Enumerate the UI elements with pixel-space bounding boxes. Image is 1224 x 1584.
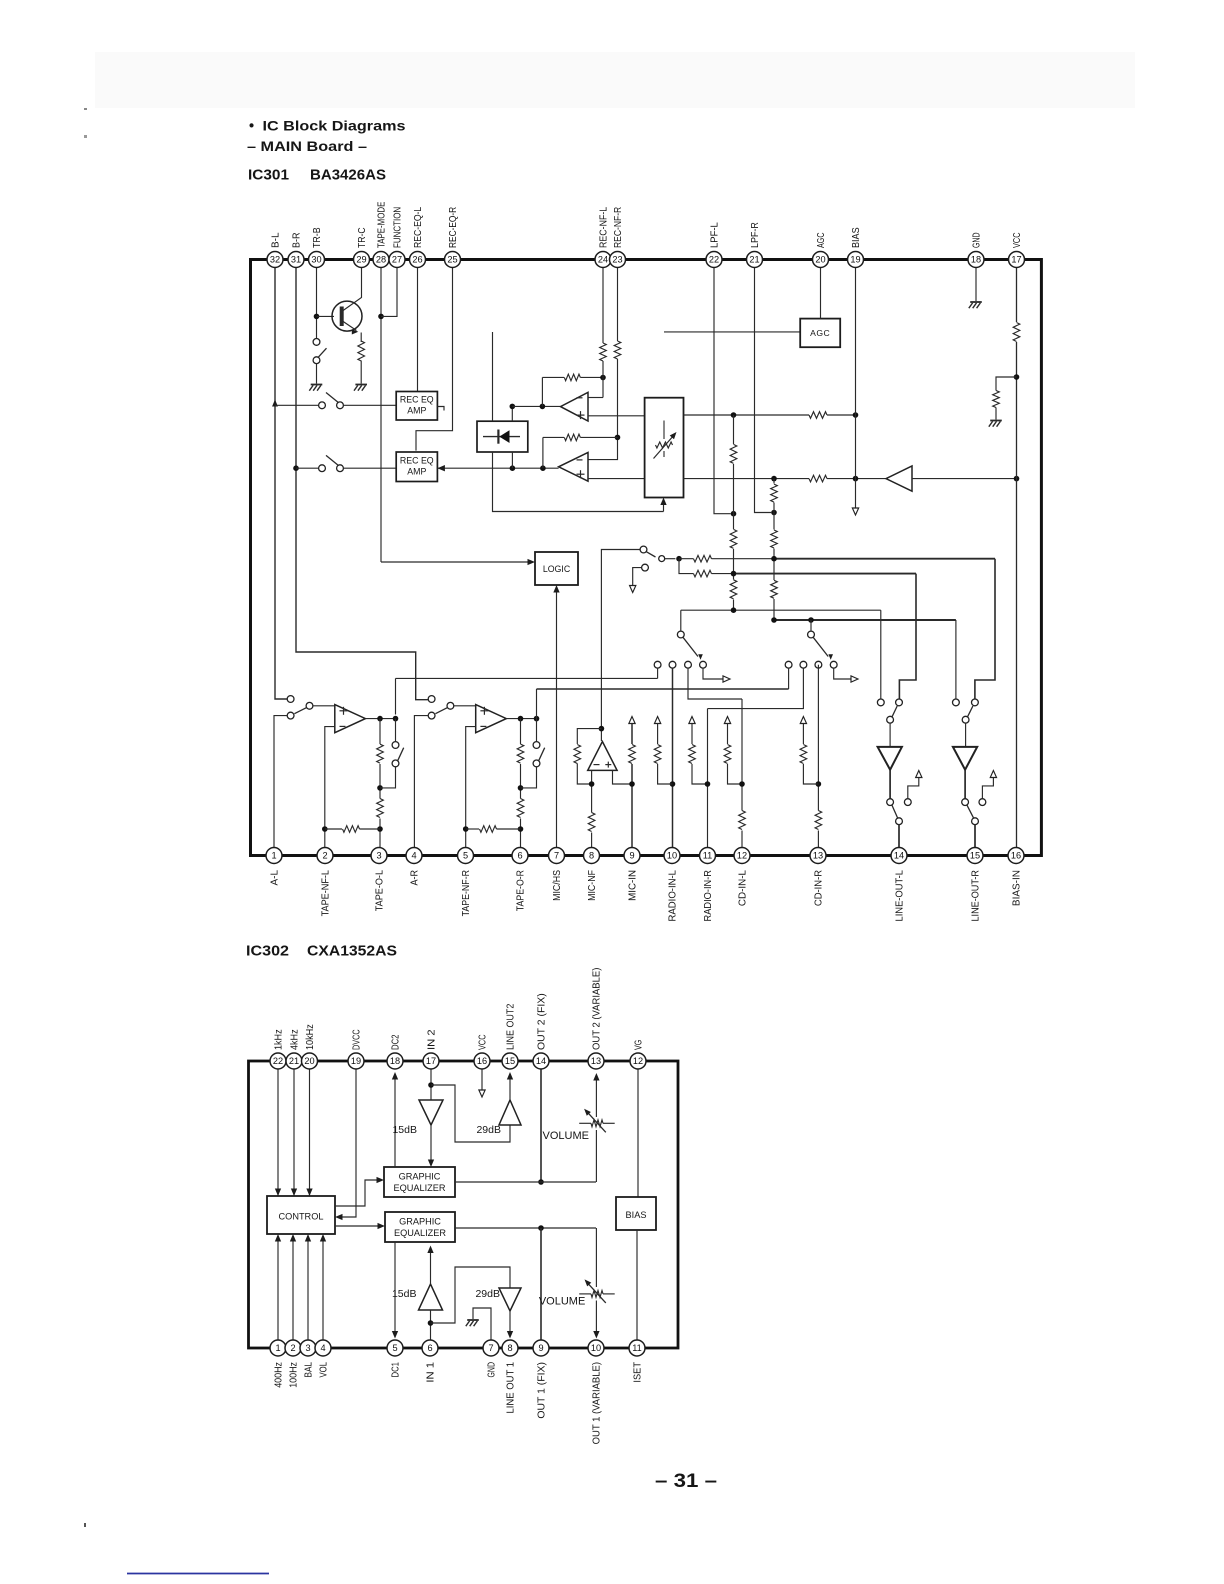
- wire pin18 GND stub: [975, 268, 977, 302]
- op-amp U5 (playback R): [476, 705, 507, 733]
- svg-text:15dB: 15dB: [392, 1124, 417, 1136]
- LINE-OUT-L pivot and arm: [887, 716, 894, 723]
- svg-text:LINE OUT2: LINE OUT2: [506, 1003, 517, 1050]
- svg-text:20: 20: [304, 1056, 314, 1066]
- svg-text:ISET: ISET: [633, 1361, 644, 1382]
- pin 22 (1kHz) of IC302: [270, 1053, 286, 1069]
- wire switch to op-amp U5 non-inverting input: [454, 705, 476, 707]
- pin 30 (TR-B) of IC301: [309, 252, 325, 268]
- svg-text:22: 22: [273, 1056, 283, 1066]
- svg-text:4: 4: [320, 1343, 325, 1353]
- wire resistor column x733 (LPF-L filter): [733, 415, 735, 610]
- pull-up column with arrow x803: [800, 717, 806, 724]
- pin 5 (DC1) of IC302: [387, 1340, 403, 1356]
- svg-text:5: 5: [392, 1343, 397, 1353]
- svg-text:TR-B: TR-B: [312, 227, 323, 248]
- junction TAPE-NF-L at feedback resistor: [322, 826, 328, 832]
- wire contact1-1 to tape monitor bus: [657, 668, 659, 678]
- tap arrowhead on B-L column at REC-EQ-L switch line: [272, 400, 278, 407]
- switch S1 contacts on REC-EQ-L line: [319, 402, 326, 409]
- svg-text:BIAS-IN: BIAS-IN: [1012, 870, 1023, 906]
- pin 18 (GND) of IC301: [968, 252, 984, 268]
- terminal arrow at BIAS column bottom: [852, 508, 858, 515]
- block LOGIC: [535, 552, 578, 585]
- pin 32 (B-L) of IC301: [267, 252, 283, 268]
- mute alternate contact with arrow L: [904, 799, 911, 806]
- svg-text:EQUALIZER: EQUALIZER: [394, 1228, 446, 1238]
- pin 16 (BIAS-IN) of IC301: [1008, 848, 1024, 864]
- wire pin5 DC1 from EQ2 with arrow down: [394, 1242, 396, 1332]
- pin 21 (4kHz) of IC302: [286, 1053, 302, 1069]
- pull-up column with arrow at MIC-IN: [629, 717, 635, 724]
- wire pin11 RADIO-IN-R column: [707, 709, 709, 848]
- svg-text:400Hz: 400Hz: [274, 1362, 285, 1388]
- svg-text:REC-EQ-L: REC-EQ-L: [413, 207, 424, 248]
- svg-text:6: 6: [427, 1343, 432, 1353]
- pin 22 (LPF-L) of IC301: [706, 252, 722, 268]
- junction at VCC column: [1014, 476, 1020, 482]
- svg-text:CD-IN-L: CD-IN-L: [738, 870, 749, 906]
- pin 8 (LINE OUT 1) of IC302: [502, 1340, 518, 1356]
- svg-text:8: 8: [589, 851, 594, 861]
- junction on B-R column at REC-EQ switch line 2: [293, 465, 299, 471]
- bypass switch S6 on TAPE-O-R: [521, 767, 537, 788]
- transistor Q1 base bar: [340, 307, 344, 327]
- wire pin31 B-R column, runs down then right to tape contact: [296, 268, 428, 700]
- junction main line / x774 column: [771, 476, 777, 482]
- selector contact group 1: [654, 661, 661, 668]
- svg-text:14: 14: [536, 1056, 546, 1066]
- svg-text:OUT 2 (VARIABLE): OUT 2 (VARIABLE): [592, 968, 603, 1050]
- wire TAPE-O-R column with feedback resistors: [520, 719, 522, 848]
- svg-text:VOLUME: VOLUME: [539, 1296, 585, 1308]
- arrow into pin10 OUT1 VARIABLE: [593, 1331, 599, 1339]
- amp 15dB (channel 1): [419, 1284, 443, 1310]
- wire pin13 CD-IN-R top riser: [817, 665, 819, 668]
- wire U4 inverting leg down MIC-NF column: [591, 770, 593, 847]
- wire op-amp U2 non-inverting input to variable-gain block: [588, 415, 645, 417]
- selector pivot 2: [808, 631, 815, 638]
- op-amp U1 input switch: [287, 696, 294, 703]
- IC301 package outline: [251, 260, 1042, 856]
- junction IN1: [428, 1320, 434, 1326]
- LINE-OUT-R pivot and arm: [962, 716, 969, 723]
- resistor on MIC-NF column: [587, 813, 596, 833]
- pin 14 (LINE-OUT-L) of IC301: [891, 848, 907, 864]
- svg-text:VOLUME: VOLUME: [543, 1130, 589, 1142]
- wire stub diode box top right with junction: [511, 406, 513, 421]
- pin 10 (RADIO-IN-L) of IC301: [664, 848, 680, 864]
- switch S4 alternate contact with terminal arrow: [642, 564, 649, 571]
- svg-text:1: 1: [271, 851, 276, 861]
- wire REC-EQ switch line 1 from B-L column to switch: [275, 404, 319, 406]
- wire pin7 GND to ground symbol: [473, 1308, 491, 1340]
- wire emitter to resistor R-emitter: [360, 333, 362, 343]
- svg-text:29: 29: [356, 255, 366, 265]
- svg-text:14: 14: [894, 851, 904, 861]
- ground at pin7: [467, 1319, 479, 1321]
- junction VCC column upper: [1014, 374, 1020, 380]
- svg-text:REC-NF-R: REC-NF-R: [613, 207, 624, 248]
- mute alternate contact with arrow R: [979, 799, 986, 806]
- svg-text:A-R: A-R: [410, 870, 421, 886]
- wire pin2 100Hz into CONTROL: [292, 1238, 294, 1340]
- svg-text:VCC: VCC: [478, 1034, 489, 1050]
- junction TAPE-O-L lower: [377, 826, 383, 832]
- junction LPF mix node: [676, 556, 682, 562]
- block CONTROL: [267, 1196, 335, 1234]
- wire pin22 1kHz into CONTROL: [277, 1070, 279, 1200]
- LINE-OUT-L output stage: selector contacts: [877, 699, 884, 706]
- svg-text:2: 2: [322, 851, 327, 861]
- svg-text:IC301: IC301: [248, 167, 290, 184]
- svg-text:B-R: B-R: [292, 233, 303, 249]
- wire pin28 TAPE-MODE column down to LOGIC: [380, 268, 382, 563]
- wire mix bus upper y558 to LINE-OUT-R selector: [679, 558, 774, 560]
- pin 17 (IN 2) of IC302: [423, 1053, 439, 1069]
- diode D1: [483, 436, 520, 438]
- svg-text:GND: GND: [487, 1362, 498, 1378]
- junction TR-B / transistor base: [314, 314, 320, 320]
- wire pin19 BIAS column: [855, 268, 857, 509]
- wire 15dB amp into EQ1 with arrow: [430, 1125, 432, 1164]
- svg-text:•: •: [249, 119, 254, 135]
- wire contact2-4 to output arrow: [834, 668, 854, 679]
- svg-text:13: 13: [591, 1056, 601, 1066]
- transistor Q1 collector: [342, 268, 362, 312]
- junction feedback riser B: [540, 465, 546, 471]
- wire riser from op-amp U1 output to monitor bus: [395, 678, 397, 714]
- wire volume 1 riser: [595, 1228, 597, 1287]
- arrow into pin13 OUT2 VARIABLE: [593, 1073, 599, 1081]
- junction RADIO-IN-L: [670, 781, 676, 787]
- svg-text:19: 19: [351, 1056, 361, 1066]
- wire U4 feedback loop with resistor: [577, 729, 601, 744]
- scan shading band at top of page: [95, 52, 1135, 108]
- junction mix bus lower / x733: [731, 571, 737, 577]
- resistor feedback B: [564, 434, 580, 441]
- wire contact2-3 down CD-IN-R column: [817, 668, 819, 847]
- switch S4 contact hook: [659, 556, 665, 562]
- junction diode-box to feedback bus: [510, 465, 516, 471]
- svg-text:31: 31: [291, 255, 301, 265]
- blue scan line bottom: [127, 1573, 269, 1575]
- wire op-amp U1 inverting input down to pin2 column: [325, 727, 335, 848]
- wire bus R corner down to LINE-OUT-R left contact: [955, 620, 957, 699]
- wire IN1 to 29dB amp 1: [431, 1267, 511, 1323]
- pin 15 (LINE-OUT-R) of IC301: [967, 848, 983, 864]
- amp 29dB (channel 1): [499, 1288, 521, 1311]
- volume control (channel 1): [579, 1293, 591, 1295]
- pin 13 (CD-IN-R) of IC301: [810, 848, 826, 864]
- svg-text:BAL: BAL: [304, 1362, 315, 1378]
- wire pin27 FUNCTION to TAPE-MODE column: [381, 268, 397, 317]
- svg-text:5: 5: [463, 851, 468, 861]
- wire pin32 B-L down-left column to input switch of op-amp U1: [275, 268, 287, 700]
- wire tape monitor bus at y678 from op-amp U1 output riser to selector contact: [396, 677, 658, 679]
- selector pivot 1: [677, 631, 684, 638]
- svg-text:LPF-L: LPF-L: [710, 222, 721, 248]
- svg-text:10kHz: 10kHz: [305, 1024, 316, 1050]
- wire feedback B riser: [542, 437, 544, 468]
- pin 12 (VG) of IC302: [630, 1053, 646, 1069]
- wire pin26 REC-EQ-L into REC EQ AMP 1: [417, 268, 419, 392]
- junction LPF upper / resistor column: [731, 412, 737, 418]
- buffer amp A1 (left pointing): [886, 466, 912, 491]
- svg-text:9: 9: [629, 851, 634, 861]
- block BIAS: [616, 1197, 656, 1230]
- junction LPF upper at BIAS column: [853, 412, 859, 418]
- svg-text:CD-IN-R: CD-IN-R: [814, 870, 825, 906]
- wire op-amp U2 output line to diode junction: [512, 405, 560, 407]
- ground below TR-B switch: [311, 384, 323, 386]
- junction mix bus upper / x774: [771, 556, 777, 562]
- wire pin18 DC2 from EQ1 with arrow up: [394, 1076, 396, 1168]
- svg-text:MIC-NF: MIC-NF: [587, 870, 598, 901]
- svg-text:16: 16: [477, 1056, 487, 1066]
- svg-text:CONTROL: CONTROL: [279, 1212, 324, 1222]
- pin 3 (BAL) of IC302: [300, 1340, 316, 1356]
- wire stub above diode box: [492, 332, 494, 421]
- svg-text:DC2: DC2: [391, 1034, 402, 1050]
- svg-text:22: 22: [709, 255, 719, 265]
- wire AGC control line: [664, 331, 800, 333]
- resistor in LPF upper line: [809, 411, 827, 419]
- pin 19 (DVCC) of IC302: [348, 1053, 364, 1069]
- resistor TAPE-NF-L to TAPE-O-L: [325, 828, 342, 830]
- wire bus L to selector pivot 1: [680, 610, 682, 631]
- pin 27 (FUNCTION) of IC301: [389, 252, 405, 268]
- wire pin12 CD-IN-L column with resistor: [741, 699, 743, 848]
- wire pin17 VCC column full height to pin16: [1016, 268, 1018, 848]
- svg-text:7: 7: [488, 1343, 493, 1353]
- svg-text:16: 16: [1011, 851, 1021, 861]
- svg-text:TR-C: TR-C: [357, 227, 368, 248]
- wire REC-NF-L into op-amp U2 inverting input: [588, 397, 603, 399]
- wire volume 2 riser: [595, 1130, 597, 1182]
- wire mode line from op-amp U4 column to switch pivot: [601, 550, 640, 742]
- svg-text:GRAPHIC: GRAPHIC: [399, 1217, 441, 1227]
- wire pin1 400Hz into CONTROL: [277, 1238, 279, 1340]
- wire pin4 A-R up to switch contact: [414, 716, 428, 848]
- svg-text:4kHz: 4kHz: [290, 1029, 301, 1050]
- amp 15dB (channel 2): [419, 1100, 443, 1125]
- svg-text:12: 12: [737, 851, 747, 861]
- block D1 limiter box: [477, 421, 528, 452]
- pin 23 (REC-NF-R) of IC301: [610, 252, 626, 268]
- svg-text:10: 10: [591, 1343, 601, 1353]
- svg-text:19: 19: [850, 255, 860, 265]
- svg-text:29dB: 29dB: [476, 1124, 501, 1136]
- block GRAPHIC EQUALIZER 1: [384, 1167, 455, 1197]
- resistor TAPE-NF-R to TAPE-O-R: [466, 828, 479, 830]
- junction OUT1 FIX: [538, 1225, 544, 1231]
- svg-text:25: 25: [447, 255, 457, 265]
- wire diode box bottom-right to feedback bus: [511, 452, 513, 468]
- block GRAPHIC EQUALIZER 2: [385, 1212, 455, 1242]
- pin 20 (AGC) of IC301: [813, 252, 829, 268]
- svg-text:6: 6: [517, 851, 522, 861]
- wire feedback A riser: [541, 377, 543, 406]
- svg-text:15: 15: [505, 1056, 515, 1066]
- resistor feedback A: [564, 374, 580, 381]
- pin 6 (IN 1) of IC302: [422, 1340, 438, 1356]
- svg-text:24: 24: [598, 255, 608, 265]
- svg-text:15dB: 15dB: [392, 1288, 417, 1300]
- wire EQ2 output bus: [455, 1227, 596, 1229]
- wire pin12 VG into BIAS: [637, 1070, 639, 1198]
- pin 15 (LINE OUT2) of IC302: [502, 1053, 518, 1069]
- switch S1 arm: [326, 393, 338, 403]
- wire pin22 LPF-L column: [714, 268, 731, 514]
- svg-text:LINE OUT 1: LINE OUT 1: [506, 1362, 517, 1414]
- svg-text:FUNCTION: FUNCTION: [393, 207, 404, 248]
- wire pin4 VOL into CONTROL: [322, 1238, 324, 1340]
- svg-text:TAPE-O-R: TAPE-O-R: [516, 870, 527, 911]
- svg-text:REC-NF-L: REC-NF-L: [599, 207, 610, 248]
- svg-text:26: 26: [412, 255, 422, 265]
- wire switch S2 to REC EQ AMP 2 input: [343, 467, 396, 469]
- pin 7 (GND) of IC302: [483, 1340, 499, 1356]
- svg-text:23: 23: [612, 255, 622, 265]
- svg-text:9: 9: [538, 1343, 543, 1353]
- svg-text:20: 20: [815, 255, 825, 265]
- svg-text:CXA1352AS: CXA1352AS: [307, 943, 397, 960]
- svg-text:OUT 1 (FIX): OUT 1 (FIX): [537, 1362, 548, 1419]
- pin 19 (BIAS) of IC301: [848, 252, 864, 268]
- svg-text:TAPE-NF-L: TAPE-NF-L: [321, 870, 332, 917]
- wire contact2-1 to op-amp output bus y689: [788, 668, 790, 689]
- svg-text:MIC/HS: MIC/HS: [552, 870, 563, 901]
- svg-text:AGC: AGC: [816, 232, 827, 248]
- svg-text:3: 3: [376, 851, 381, 861]
- resistor on REC-NF-R column: [614, 341, 621, 359]
- wire pin9 OUT1 FIX column: [540, 1228, 542, 1340]
- svg-text:27: 27: [392, 255, 402, 265]
- pin 2 (TAPE-NF-L) of IC301: [317, 848, 333, 864]
- wire op-amp U5 output: [506, 718, 536, 720]
- svg-text:TAPE-MODE: TAPE-MODE: [377, 202, 388, 248]
- pin 11 (ISET) of IC302: [629, 1340, 645, 1356]
- wire resistor to ground: [360, 361, 362, 384]
- wire pin30 TR-B column: [316, 268, 318, 339]
- svg-text:MIC-IN: MIC-IN: [628, 870, 639, 901]
- wire contact1-2 down RADIO-IN-L column: [672, 668, 674, 847]
- wire corner down to LINE-OUT-R right contact: [975, 559, 995, 699]
- wire resistor column x774 (LPF-R filter): [773, 479, 775, 620]
- svg-text:IN 2: IN 2: [427, 1029, 438, 1050]
- pin 28 (TAPE-MODE) of IC301: [373, 252, 389, 268]
- switch S3 on TR-B column: [313, 339, 320, 346]
- volume control (channel 2): [579, 1122, 591, 1124]
- svg-text:VCC: VCC: [1012, 232, 1023, 248]
- wire TAPE-MODE into LOGIC with arrow: [381, 561, 531, 563]
- resistor on Q1 emitter: [358, 341, 365, 361]
- svg-text:100Hz: 100Hz: [289, 1362, 300, 1388]
- svg-text:1: 1: [275, 1343, 280, 1353]
- resistor on CD-IN-R column: [814, 811, 823, 831]
- pin 10 (OUT 1 (VARIABLE)) of IC302: [588, 1340, 604, 1356]
- svg-text:17: 17: [1011, 255, 1021, 265]
- svg-text:30: 30: [311, 255, 321, 265]
- wire switch to op-amp U1 non-inverting input: [313, 705, 335, 707]
- mute switch S8: [962, 799, 969, 806]
- wire buffer B2 to mute switch: [964, 770, 966, 799]
- pin 7 (MIC/HS) of IC301: [549, 848, 565, 864]
- op-amp U2 (REC L): [561, 392, 589, 421]
- wire buffer A1 to VCC column: [912, 478, 1017, 480]
- junction feedback B on REC-NF-R column: [615, 435, 621, 441]
- svg-text:LINE-OUT-R: LINE-OUT-R: [971, 870, 982, 922]
- svg-text:A-L: A-L: [270, 870, 281, 886]
- wire VCC branch to ground via resistor: [996, 377, 1017, 391]
- pull-up column with arrow x727: [724, 717, 730, 724]
- pin 12 (CD-IN-L) of IC301: [734, 848, 750, 864]
- pin 21 (LPF-R) of IC301: [747, 252, 763, 268]
- wire pin16 VCC stub with arrow: [481, 1070, 483, 1091]
- wire contact1-3 to CD-IN-L riser: [688, 668, 742, 699]
- mute switch S7: [887, 799, 894, 806]
- svg-text:AMP: AMP: [407, 467, 426, 477]
- svg-text:29dB: 29dB: [475, 1288, 500, 1300]
- wire REC-EQ switch line 2 from B-R column to switch: [296, 467, 319, 469]
- bypass switch S5 on TAPE-O-L: [380, 767, 396, 788]
- pin 24 (REC-NF-L) of IC301: [595, 252, 611, 268]
- wire pin21 LPF-R column: [755, 268, 772, 513]
- pin 3 (TAPE-O-L) of IC301: [371, 848, 387, 864]
- junction U1 output / TAPE-O-L column: [377, 716, 383, 722]
- wire op-amp U1 output: [365, 718, 395, 720]
- wire TAPE-O-L column with feedback resistors: [379, 719, 381, 848]
- wire LPF bus upper from variable-gain to BIAS column: [684, 414, 856, 416]
- wire contact2-2 to RADIO-IN-R riser: [708, 668, 804, 709]
- svg-text:DC1: DC1: [391, 1362, 402, 1378]
- svg-text:VG: VG: [634, 1040, 645, 1050]
- op-amp U5 input switch: [428, 696, 435, 703]
- wire contact to LPF junction: [665, 558, 676, 560]
- junction CD-IN-R: [816, 781, 822, 787]
- pin 8 (MIC-NF) of IC301: [584, 848, 600, 864]
- block REC EQ AMP 1: [396, 392, 437, 421]
- pin 1 (A-L) of IC301: [266, 848, 282, 864]
- LINE-OUT-R output stage: selector contacts: [953, 699, 960, 706]
- wire bus R to selector pivot 2: [810, 620, 812, 631]
- svg-text:RADIO-IN-L: RADIO-IN-L: [668, 870, 679, 922]
- wire mix bus lower y573 to LINE-OUT-L selector: [679, 559, 734, 574]
- wire 15dB amp 1 output to pin6 IN1: [430, 1310, 432, 1340]
- pin 26 (REC-EQ-L) of IC301: [410, 252, 426, 268]
- pin 14 (OUT 2 (FIX)) of IC302: [533, 1053, 549, 1069]
- wire pin20 into AGC block: [820, 268, 822, 319]
- wire pivot to buffer B2: [965, 723, 967, 747]
- svg-text:15: 15: [970, 851, 980, 861]
- svg-text:IN 1: IN 1: [426, 1362, 437, 1383]
- op-amp U1 (playback L): [335, 705, 366, 733]
- svg-text:BIAS: BIAS: [851, 227, 862, 248]
- wire U4 output leg to MIC-IN column: [613, 770, 633, 784]
- ground at pin18: [970, 301, 982, 303]
- junction TAPE-NF-R at feedback resistor: [463, 826, 469, 832]
- svg-text:LINE-OUT-L: LINE-OUT-L: [895, 870, 906, 922]
- pin 4 (VOL) of IC302: [315, 1340, 331, 1356]
- wire input select bus L y610: [681, 609, 881, 611]
- svg-text:21: 21: [289, 1056, 299, 1066]
- scan speck top-left: [84, 108, 87, 110]
- transistor Q1 emitter with arrow: [342, 321, 357, 331]
- wire feedback A to REC-NF-L column: [542, 376, 564, 378]
- pin 5 (TAPE-NF-R) of IC301: [458, 848, 474, 864]
- wire to pin15: [974, 825, 976, 848]
